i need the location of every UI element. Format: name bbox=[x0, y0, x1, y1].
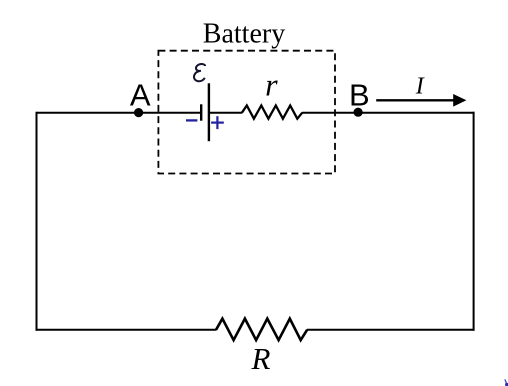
EMF label script-E bbox=[194, 64, 205, 81]
current arrow shaft bbox=[376, 99, 456, 101]
wire right side bbox=[473, 112, 475, 331]
dashed battery box bbox=[158, 51, 335, 174]
current arrow head bbox=[453, 94, 466, 107]
minus sign of battery bbox=[186, 119, 197, 121]
resistor r zigzag bbox=[242, 106, 302, 119]
battery long positive plate bbox=[208, 83, 210, 141]
node B bbox=[354, 108, 363, 117]
wire top-left segment A to battery bbox=[37, 112, 201, 114]
wire bottom right segment bbox=[307, 329, 475, 331]
plus sign of battery bbox=[211, 116, 224, 129]
wire bottom left segment bbox=[36, 329, 217, 331]
svg-text:A: A bbox=[130, 78, 151, 113]
svg-text:r: r bbox=[265, 66, 278, 102]
svg-text:I: I bbox=[415, 74, 425, 100]
svg-text:R: R bbox=[251, 341, 271, 376]
battery short negative plate bbox=[200, 104, 202, 120]
wire left side bbox=[36, 112, 38, 331]
wire resistor r to B to top-right corner bbox=[302, 112, 475, 114]
node A bbox=[134, 108, 143, 117]
svg-text:Battery: Battery bbox=[203, 19, 285, 50]
resistor R zigzag bbox=[216, 319, 307, 341]
wire battery to resistor r bbox=[209, 112, 242, 114]
svg-text:B: B bbox=[349, 78, 370, 113]
stray blue mark bottom-right corner bbox=[505, 379, 507, 384]
